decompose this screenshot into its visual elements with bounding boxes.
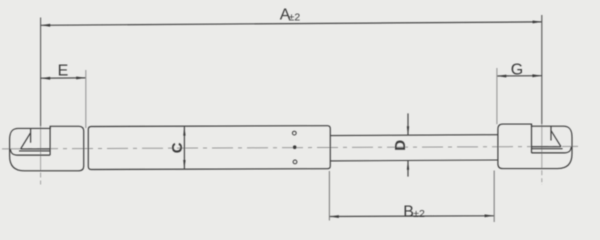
extension line right eyelet center [541, 15, 543, 124]
dimension A±2 line [41, 22, 543, 25]
shelf top line [21, 148, 50, 150]
hook inner line [532, 147, 572, 153]
vent hole top [292, 131, 296, 135]
dimension E line [41, 77, 86, 79]
arrowhead B right [485, 214, 494, 217]
dimension D arrows [407, 113, 409, 135]
piston rod bottom edge [330, 159, 498, 162]
piston rod top edge [330, 134, 498, 137]
clip diagonal [21, 133, 31, 149]
clip slot vertical [531, 124, 533, 153]
dimension G line [497, 75, 542, 77]
svg-text:±2: ±2 [289, 12, 301, 24]
shelf bottom line [532, 148, 563, 150]
extension line E right [85, 70, 87, 128]
arrowhead E right [76, 77, 85, 80]
svg-text:E: E [58, 62, 69, 79]
clip slot vertical [49, 126, 51, 155]
svg-text:D: D [392, 140, 409, 151]
svg-text:C: C [169, 142, 186, 153]
arrowhead B left [330, 215, 339, 218]
clip flag vertical [550, 126, 552, 140]
shelf top line [532, 146, 562, 148]
shelf bottom line [19, 150, 50, 152]
fitting outline [498, 124, 572, 169]
extension line left eyelet center [40, 18, 42, 127]
clip flag vertical [30, 128, 32, 142]
arrowhead G left [497, 75, 506, 78]
svg-text:±2: ±2 [413, 208, 425, 220]
fitting outline [10, 126, 84, 171]
dimension B±2 line [329, 215, 494, 218]
arrowhead A right [533, 21, 542, 24]
arrowhead E left [41, 77, 50, 80]
extension line B right [493, 171, 495, 223]
right eyelet end fitting (mirrored) [498, 124, 572, 169]
svg-text:G: G [511, 61, 523, 78]
hook inner line [10, 149, 50, 155]
arrowhead A left [41, 24, 50, 27]
left eyelet end fitting [10, 126, 84, 171]
dimension C arrows inside cylinder [183, 127, 185, 169]
vent hole bottom [293, 160, 297, 164]
vent hole middle (filled) [293, 145, 297, 149]
clip diagonal [551, 131, 561, 147]
cylinder tube body [88, 126, 330, 170]
extension line G left [496, 68, 498, 124]
centerline main axis [2, 146, 578, 149]
extension line B left [328, 171, 330, 221]
arrowhead G right [532, 74, 541, 77]
